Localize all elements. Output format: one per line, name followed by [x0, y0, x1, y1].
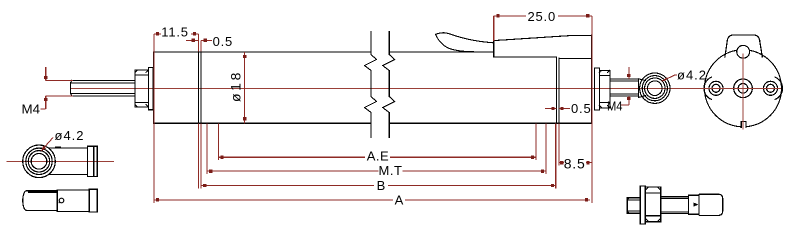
- svg-text:ø4.2: ø4.2: [677, 68, 707, 83]
- svg-text:B: B: [377, 178, 386, 193]
- svg-text:0.5: 0.5: [213, 34, 233, 49]
- svg-text:11.5: 11.5: [161, 25, 189, 40]
- svg-text:ø4.2: ø4.2: [55, 128, 85, 143]
- svg-text:8.5: 8.5: [564, 156, 586, 172]
- svg-text:M.T: M.T: [379, 163, 403, 178]
- svg-text:M4: M4: [22, 102, 41, 117]
- svg-text:ø18: ø18: [228, 70, 244, 102]
- svg-text:A.E: A.E: [367, 149, 389, 164]
- svg-text:A: A: [395, 192, 404, 207]
- svg-text:0.5: 0.5: [571, 101, 591, 116]
- svg-text:25.0: 25.0: [528, 9, 557, 24]
- svg-text:M4: M4: [607, 99, 623, 114]
